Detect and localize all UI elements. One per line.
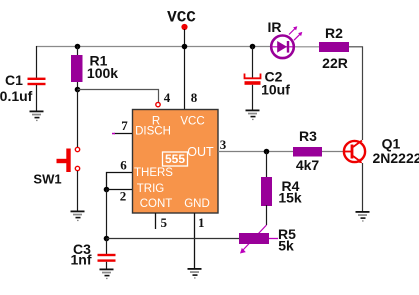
svg-text:555: 555 [165,152,185,166]
svg-text:0.1uf: 0.1uf [0,88,33,104]
wire C1 top lead [36,46,38,78]
ground under C3 [100,269,114,280]
wire C3 bottom lead [106,262,108,269]
svg-text:4: 4 [164,90,171,105]
wire R3 to base [322,151,345,153]
node R1 bottom junction [75,87,81,93]
svg-text:CONT: CONT [140,198,173,210]
wire VCC to pin 8 [184,29,186,109]
capacitor C1 [28,78,46,86]
svg-text:3: 3 [220,137,227,152]
resistor R5 [239,233,269,244]
wire R1 bottom lead [77,82,79,89]
ground under Q1 [356,211,370,222]
svg-text:5k: 5k [278,238,294,254]
LED light arrow 2 [294,32,302,40]
wire R2 to collector [349,47,363,140]
node C3 junction [104,236,110,242]
svg-text:1: 1 [198,215,205,230]
label 555 box [163,152,188,166]
pin 4 reset circle [156,102,160,106]
svg-text:15k: 15k [278,190,302,206]
svg-text:7: 7 [121,118,128,133]
node R1 top junction [75,44,81,50]
switch SW1 [57,147,80,172]
node OUT junction [264,149,270,155]
svg-text:4k7: 4k7 [296,157,320,173]
wire emitter to ground [362,163,364,211]
resistor R5 wiper arrow [240,225,267,254]
transistor Q1 [344,141,365,164]
op IC 555 body [133,110,219,214]
svg-text:1nf: 1nf [71,252,92,268]
pin 7 stub tick [112,133,115,135]
ground under pin 1 [188,268,202,279]
wire C2 top lead [252,46,254,78]
wire junction to C3 [106,190,108,239]
svg-text:100k: 100k [87,65,118,81]
svg-text:VCC: VCC [167,9,196,27]
svg-text:6: 6 [120,158,127,173]
svg-text:22R: 22R [322,55,348,71]
resistor R1 [71,55,83,82]
pin 5 stub [155,213,157,229]
svg-text:C1: C1 [5,72,23,88]
svg-text:IR: IR [268,19,282,35]
wire SW1 bottom lead [77,171,79,211]
LED light arrow 1 [289,26,297,34]
resistor R4 [261,177,272,206]
svg-text:GND: GND [184,198,210,210]
wire C1 bottom lead [36,85,38,111]
node pins 6-2 junction [104,187,110,193]
ground under C2 [246,110,260,121]
capacitor C3 [98,254,116,262]
wire R4 top lead [266,152,268,179]
svg-text:2N2222: 2N2222 [372,150,419,166]
svg-text:10uf: 10uf [261,82,290,98]
svg-text:2: 2 [120,189,127,204]
pin 2 stub [107,189,133,191]
resistor R5 right stub [269,238,278,240]
pin 1 stub [194,213,196,268]
svg-text:DISCH: DISCH [135,126,171,138]
svg-text:R3: R3 [299,128,317,144]
node C2 junction [250,44,256,50]
resistor R2 [319,42,349,52]
svg-text:OUT: OUT [187,145,214,159]
wire bottom rail to R5 [107,238,240,240]
wire top rail [36,46,270,48]
ground under SW1 [71,211,85,222]
capacitor C2 [245,74,261,85]
wire R1 top lead [77,46,79,56]
svg-text:R2: R2 [325,25,343,41]
ground under C1 [30,111,44,122]
svg-text:SW1: SW1 [33,172,61,187]
svg-text:8: 8 [191,90,198,105]
svg-text:VCC: VCC [180,115,204,127]
LED IR [270,36,295,59]
wire OUT pin 3 [218,151,293,153]
pin 6 stub [107,173,133,190]
node VCC dot [181,24,187,30]
wire R4 bottom lead [266,205,268,225]
resistor R3 [293,147,322,157]
svg-text:5: 5 [161,215,168,230]
node VCC rail junction [182,44,188,50]
svg-text:TRIG: TRIG [137,183,165,195]
pin 7 stub [114,133,132,135]
wire C3 top lead [106,239,108,255]
wire SW1 top lead [77,90,79,148]
wire LED to R2 [295,46,319,48]
wire C2 bottom lead [252,85,254,110]
wire junction to pin 4 [78,90,159,103]
svg-text:THERS: THERS [134,167,173,179]
